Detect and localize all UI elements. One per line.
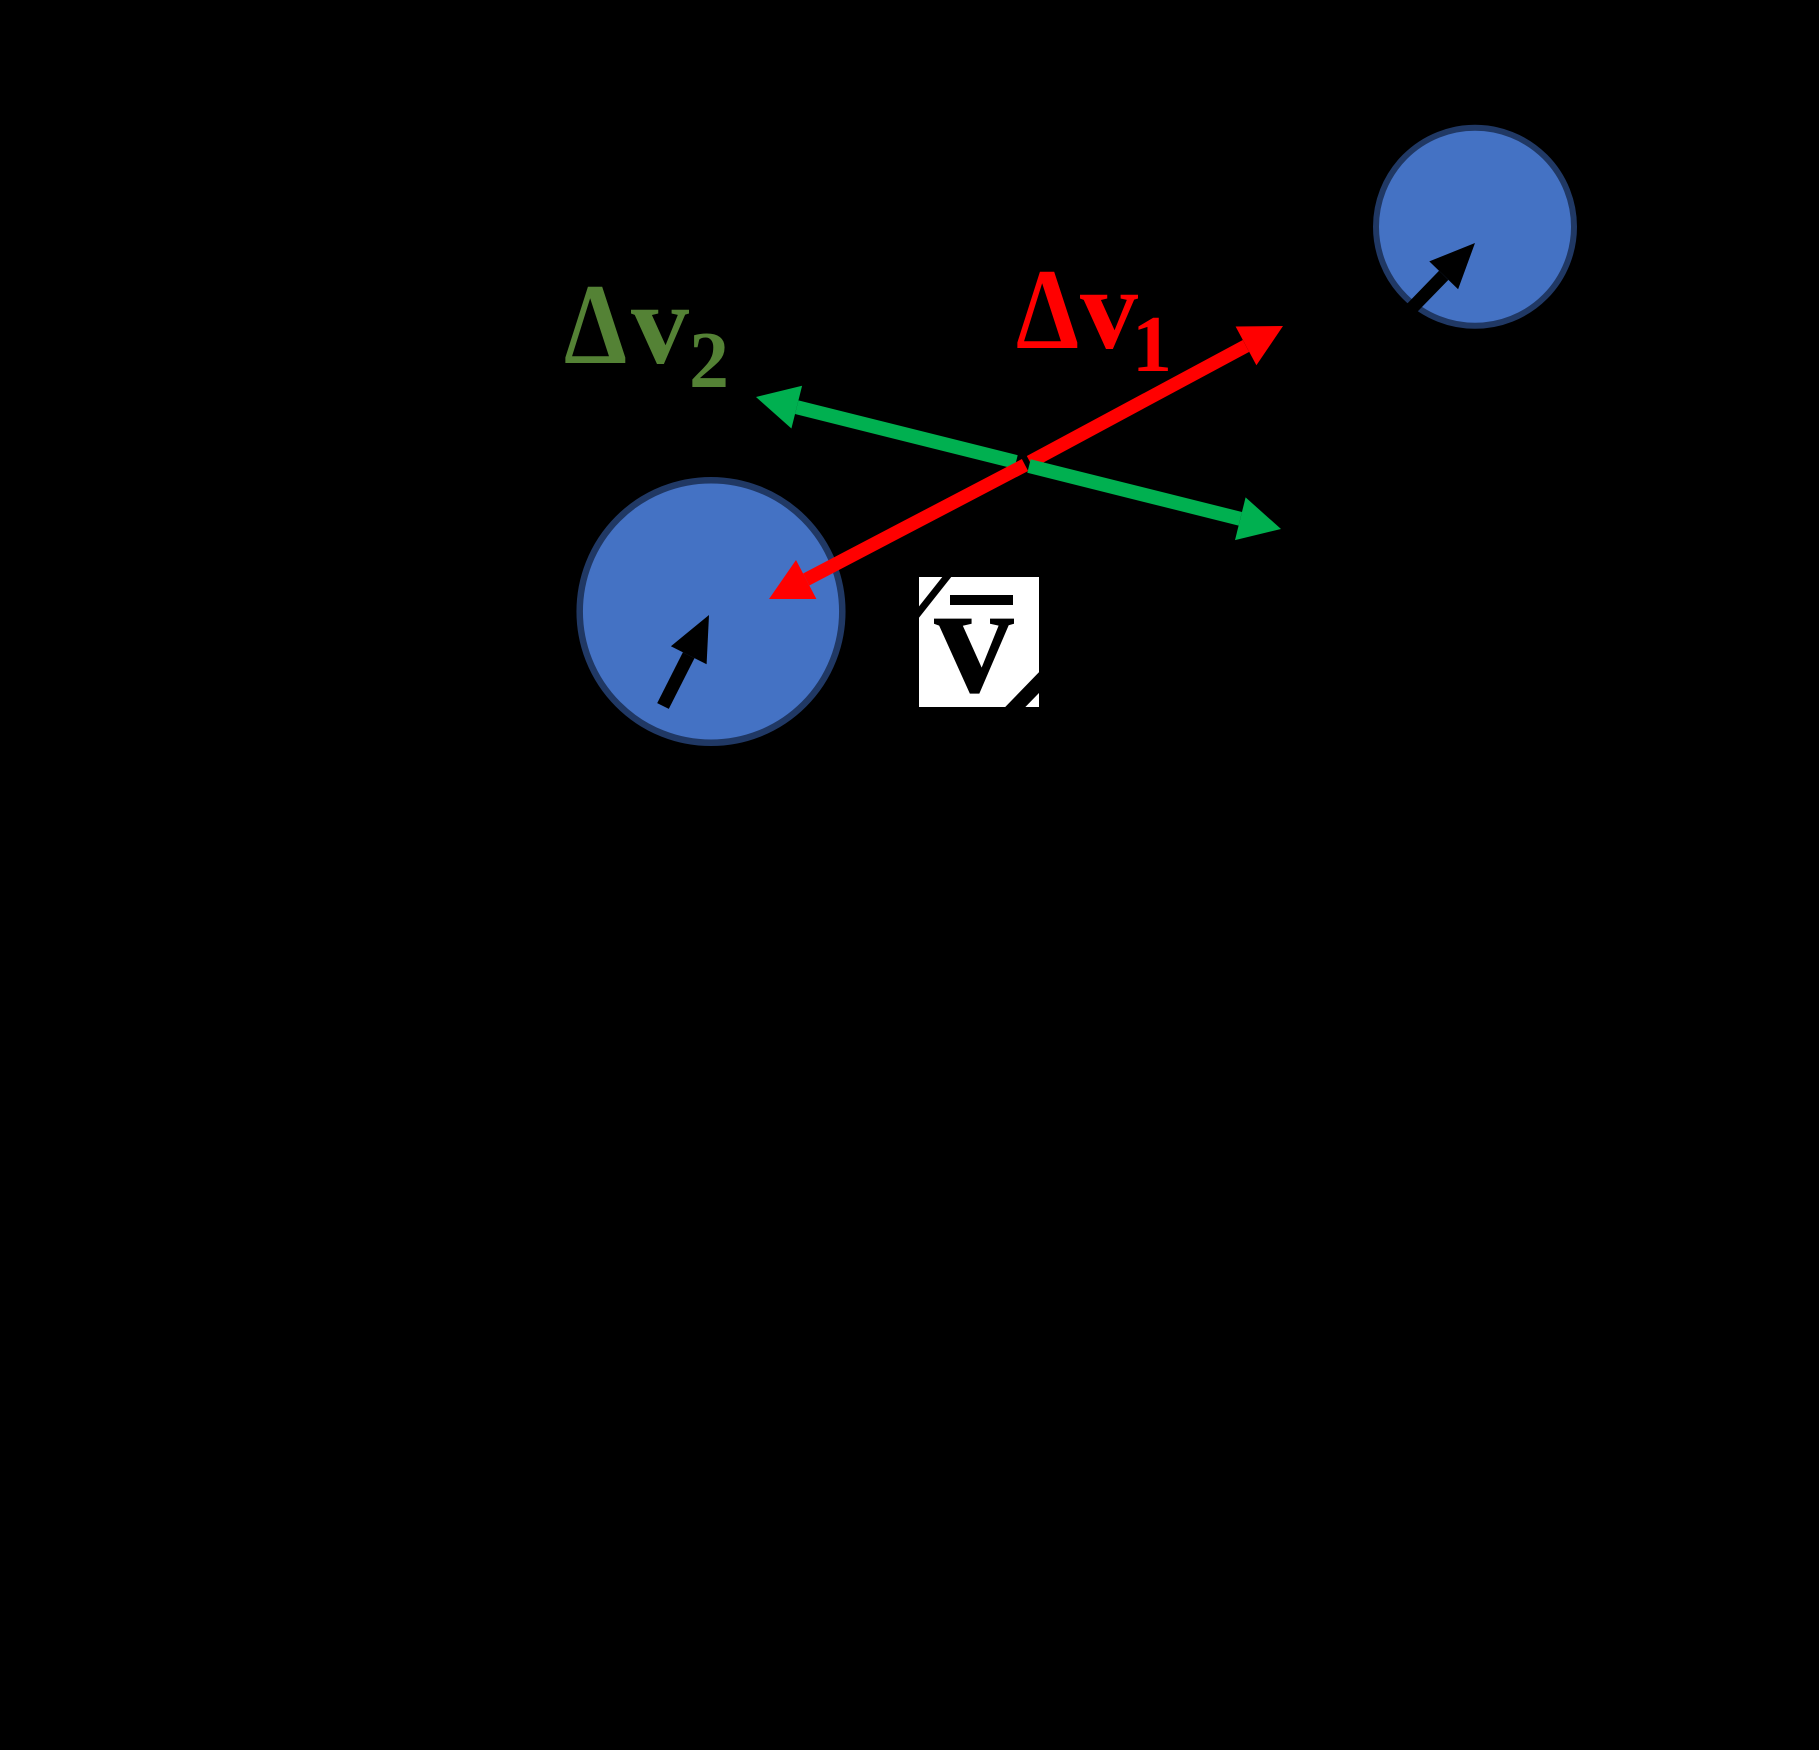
svg-text:2: 2 (689, 317, 729, 405)
red arrow dv1 lower-left segment (769, 465, 1025, 599)
red arrow dv1 upper-right segment (1030, 326, 1283, 462)
molecule 1 (large blue circle) (580, 480, 843, 743)
molecule 2 (small blue circle) (1376, 128, 1574, 326)
velocity arrow inside molecule 1 (663, 615, 709, 706)
green arrow dv2 upper-left segment (756, 386, 1016, 462)
black stroke over box top-left corner (908, 565, 956, 626)
white label box for average speed (919, 577, 1039, 707)
svg-text:Δ: Δ (564, 261, 627, 389)
velocity arrow inside molecule 2 (1411, 243, 1475, 309)
black stroke over box bottom-right corner (1008, 673, 1048, 714)
svg-text:v: v (631, 261, 689, 389)
green arrow dv2 lower-right segment (1029, 466, 1281, 540)
svg-text:1: 1 (1132, 301, 1172, 389)
svg-text:Δ: Δ (1016, 246, 1079, 374)
svg-text:v: v (1080, 246, 1138, 374)
